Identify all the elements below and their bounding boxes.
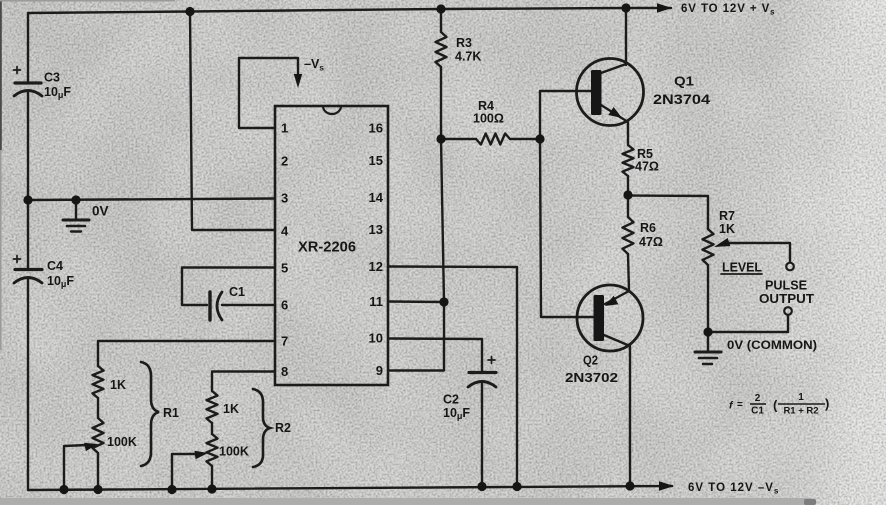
svg-text:XR-2206: XR-2206 bbox=[298, 240, 356, 256]
svg-text:OUTPUT: OUTPUT bbox=[759, 291, 814, 306]
svg-text:R1: R1 bbox=[163, 406, 179, 420]
svg-text:10μF: 10μF bbox=[443, 406, 470, 421]
svg-text:6: 6 bbox=[281, 298, 288, 313]
svg-text:R1 + R2: R1 + R2 bbox=[783, 406, 818, 417]
svg-text:4.7K: 4.7K bbox=[455, 50, 481, 64]
svg-text:100Ω: 100Ω bbox=[473, 112, 504, 126]
svg-text:10μF: 10μF bbox=[44, 85, 71, 100]
svg-text:Q1: Q1 bbox=[674, 75, 694, 89]
svg-text:2: 2 bbox=[281, 154, 288, 169]
svg-text:6V TO 12V + Vs: 6V TO 12V + Vs bbox=[681, 3, 776, 17]
svg-text:R2: R2 bbox=[275, 421, 291, 435]
svg-text:): ) bbox=[825, 396, 829, 411]
svg-text:100K: 100K bbox=[219, 445, 249, 459]
svg-text:=: = bbox=[737, 400, 743, 411]
svg-text:1K: 1K bbox=[110, 378, 126, 392]
svg-text:11: 11 bbox=[369, 294, 383, 309]
svg-text:2N3704: 2N3704 bbox=[653, 92, 711, 107]
svg-text:3: 3 bbox=[281, 191, 288, 206]
svg-text:R7: R7 bbox=[719, 209, 735, 223]
svg-text:LEVEL: LEVEL bbox=[722, 261, 762, 275]
svg-text:0V (COMMON): 0V (COMMON) bbox=[727, 338, 817, 352]
svg-text:12: 12 bbox=[369, 259, 383, 274]
svg-text:14: 14 bbox=[369, 190, 384, 205]
svg-text:7: 7 bbox=[281, 334, 288, 349]
svg-text:C1: C1 bbox=[751, 406, 764, 417]
svg-text:1: 1 bbox=[798, 392, 804, 403]
svg-text:1K: 1K bbox=[719, 222, 735, 236]
svg-text:6V TO 12V –Vs: 6V TO 12V –Vs bbox=[688, 482, 779, 496]
svg-text:10μF: 10μF bbox=[47, 274, 74, 289]
svg-text:2N3702: 2N3702 bbox=[565, 370, 618, 385]
svg-text:100K: 100K bbox=[107, 435, 137, 449]
svg-text:47Ω: 47Ω bbox=[639, 235, 663, 249]
svg-text:C4: C4 bbox=[47, 259, 63, 273]
svg-text:(: ( bbox=[773, 398, 778, 413]
svg-text:9: 9 bbox=[376, 363, 383, 378]
svg-text:C2: C2 bbox=[443, 393, 459, 407]
svg-text:R6: R6 bbox=[640, 221, 656, 235]
svg-text:0V: 0V bbox=[92, 204, 109, 219]
svg-text:8: 8 bbox=[281, 364, 288, 379]
svg-text:1: 1 bbox=[281, 121, 288, 136]
svg-text:5: 5 bbox=[281, 261, 288, 276]
svg-text:47Ω: 47Ω bbox=[635, 160, 659, 174]
svg-text:C1: C1 bbox=[229, 285, 245, 299]
svg-text:15: 15 bbox=[369, 153, 383, 168]
svg-text:C3: C3 bbox=[44, 71, 60, 85]
svg-text:4: 4 bbox=[281, 224, 289, 239]
svg-text:2: 2 bbox=[755, 393, 761, 404]
svg-text:16: 16 bbox=[369, 121, 383, 136]
svg-text:13: 13 bbox=[369, 222, 383, 237]
svg-text:10: 10 bbox=[369, 331, 383, 346]
svg-text:1K: 1K bbox=[223, 402, 239, 416]
svg-text:R3: R3 bbox=[456, 36, 472, 50]
svg-text:Q2: Q2 bbox=[583, 354, 598, 368]
